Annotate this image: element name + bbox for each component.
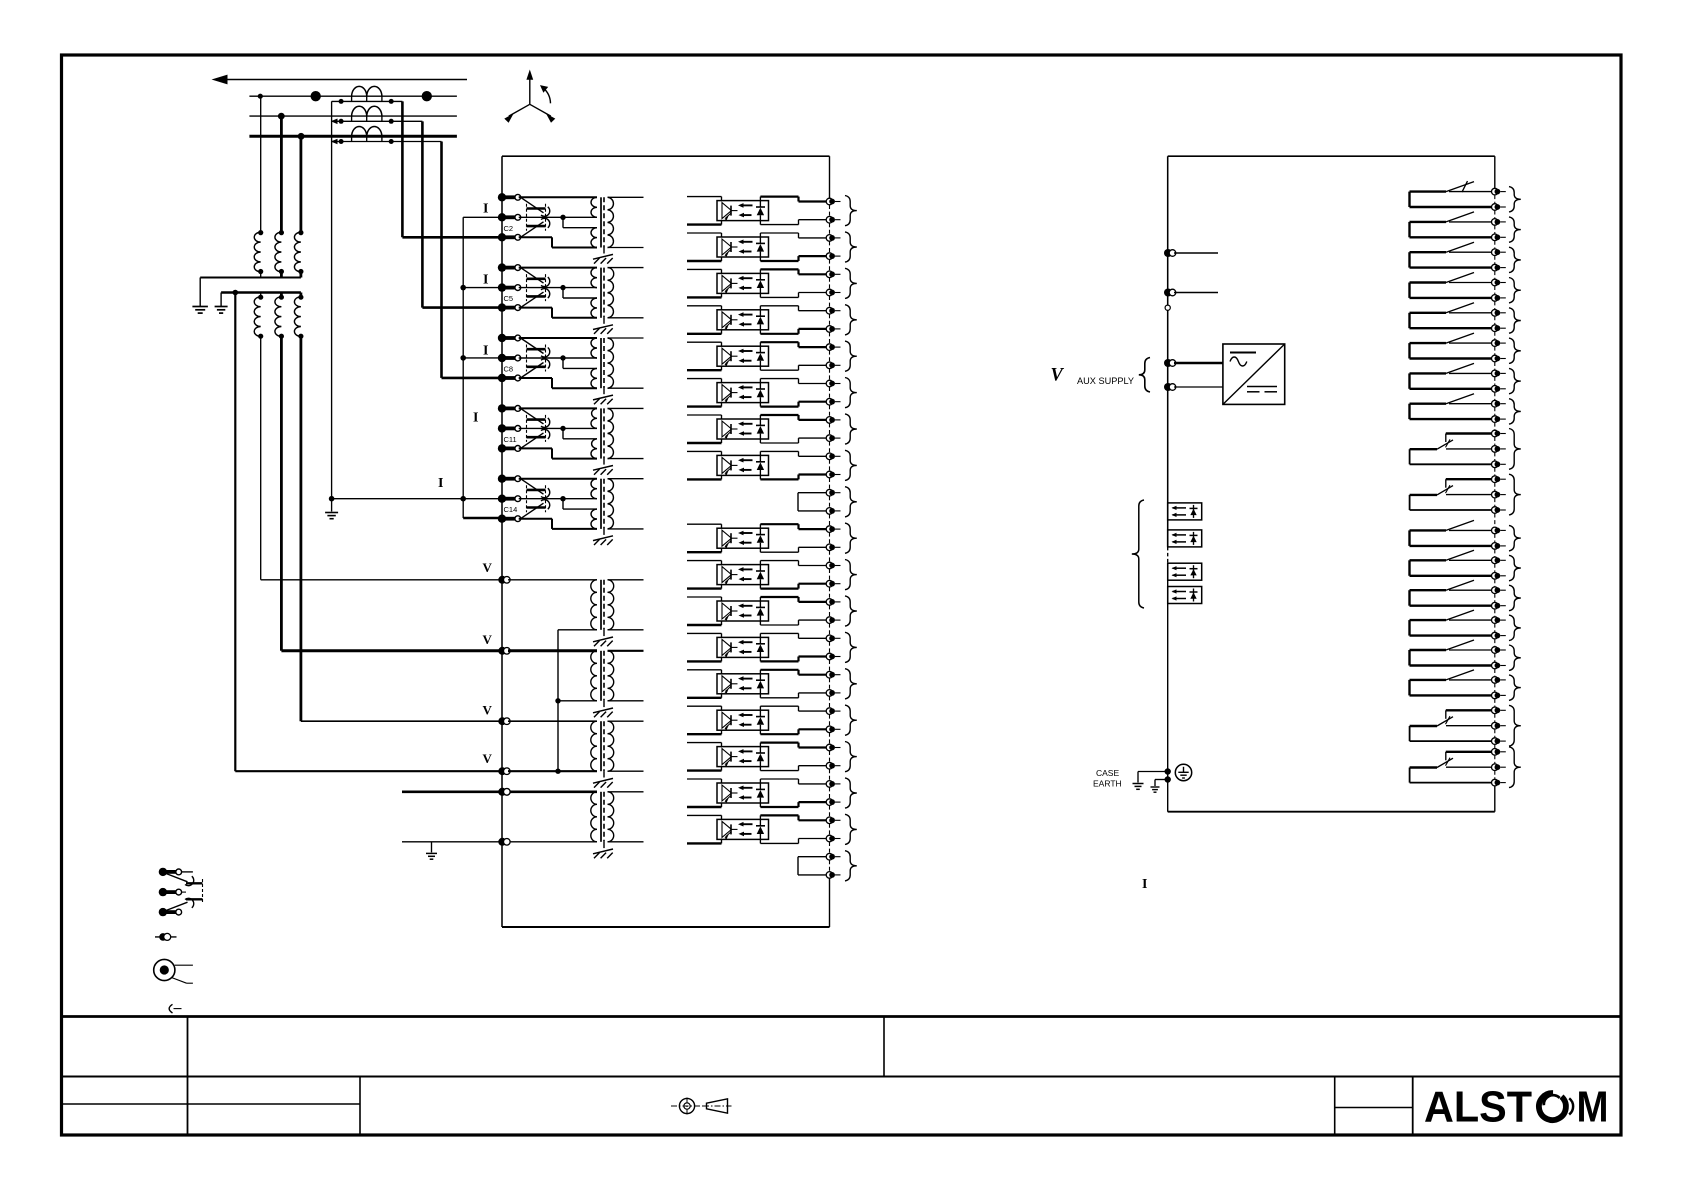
wire C5 secondary [608, 267, 644, 269]
wire C8 T2 tap [519, 357, 563, 359]
brace contact RL11 [1509, 525, 1521, 551]
node bus C tap [298, 133, 305, 140]
terminal pair contact RL3 [1492, 249, 1499, 256]
ground VT secondary [215, 306, 228, 308]
phasor rotation symbol [529, 75, 531, 104]
wire CT common to C14 [332, 498, 502, 500]
opto-isolator U2 [717, 237, 769, 257]
brace contact RL12 [1509, 555, 1521, 581]
opto-isolator U10 [717, 565, 769, 585]
wire earthed VT return [402, 841, 502, 843]
brace pair 8 [845, 450, 857, 480]
brace contact RL15 [1509, 645, 1521, 671]
wire VT secondary common tie [221, 291, 301, 294]
wire C8 secondary [608, 337, 644, 339]
svg-text:EARTH: EARTH [1093, 779, 1122, 789]
wire CT2 secondary loop [332, 120, 423, 122]
protective earth symbol [1175, 764, 1191, 780]
relay contact RL8 (make) [1410, 418, 1495, 420]
terminal trio contact RL10 [1492, 476, 1499, 483]
switch C5 CT shorting contacts [521, 268, 544, 284]
terminal pair 12 case outputs [826, 599, 833, 606]
svg-text:C14: C14 [504, 505, 518, 514]
relay contact RL18 (changeover) [1446, 751, 1495, 753]
legend shorting switch symbol [159, 868, 167, 876]
opto-isolator U3 [717, 273, 769, 293]
brace pair 16 [845, 742, 857, 772]
relay contact RL6 (make) [1410, 357, 1495, 359]
terminal V4 voltage input [498, 788, 506, 796]
terminal aux supply + [1164, 359, 1172, 367]
svg-text:I: I [483, 343, 488, 358]
transformer C5 input CT [591, 268, 597, 288]
relay contact RL15 (make) [1410, 664, 1495, 666]
terminal pair 17 case outputs [826, 781, 833, 788]
svg-text:V: V [1051, 366, 1065, 386]
terminal V3 voltage input [498, 717, 506, 725]
current transformer CT3 phase C [352, 126, 382, 136]
terminal pair 9 case outputs [826, 489, 833, 496]
transformer C11 input CT [591, 408, 597, 428]
brace pair 1 [845, 196, 857, 226]
terminal V2 voltage input [498, 647, 506, 655]
ground CT common [331, 499, 333, 512]
ground C8 CT screen [603, 388, 605, 394]
brace contact RL4 [1509, 278, 1521, 303]
wire return to C14 T3 [463, 517, 502, 519]
brace pair 12 [845, 596, 857, 626]
terminal pair contact RL13 [1492, 587, 1499, 594]
terminal pair 5 case outputs [826, 344, 833, 351]
terminal trio contact RL18 [1492, 749, 1499, 756]
wire C5 T2 tap [519, 287, 563, 289]
node return C8 [460, 355, 466, 361]
svg-text:M: M [1577, 1083, 1609, 1132]
svg-text:C2: C2 [504, 224, 514, 233]
wire VT secondary C to relay V3 [299, 336, 302, 721]
wire VT neutral to relay V4 [234, 293, 236, 772]
brace contact RL8 [1509, 399, 1521, 424]
wire VT secondary A to relay V1 [260, 336, 262, 579]
wire C8 T1 to CT primary [519, 337, 597, 339]
svg-text:I: I [473, 411, 478, 426]
svg-text:V: V [483, 560, 493, 575]
transformer VT3 [508, 720, 597, 722]
terminal pair contact RL14 [1492, 617, 1499, 624]
output terminal dashed strip [1494, 195, 1496, 203]
relay contact RL12 (make) [1410, 575, 1495, 577]
terminal V return inputs [498, 767, 506, 775]
brace pair 5 [845, 341, 857, 371]
brace contact RL18 [1509, 747, 1521, 788]
brace opto inputs group [1132, 500, 1144, 608]
brace aux supply [1139, 358, 1150, 393]
svg-text:V: V [483, 751, 493, 766]
wire CT common lead [331, 101, 333, 498]
svg-text:I: I [483, 272, 488, 287]
opto input L3 [1168, 563, 1202, 580]
brace contact RL6 [1509, 338, 1521, 363]
wire CT3 secondary loop [332, 141, 442, 143]
terminal block C14 current input [498, 475, 506, 483]
wire spare VT input [402, 790, 502, 793]
brace contact RL1 [1509, 187, 1521, 212]
wire VT common link [557, 630, 559, 771]
busbar phase B [249, 115, 457, 117]
wire CT3 secondary to C8 [440, 142, 443, 378]
terminal pair contact RL4 [1492, 279, 1499, 286]
brace contact RL9 [1509, 429, 1521, 470]
opto-isolator U17 [717, 819, 769, 839]
ground VT primary star point [192, 306, 208, 308]
svg-text:I: I [1142, 877, 1147, 892]
terminal aux supply - [1164, 383, 1172, 391]
legend socket symbol [154, 959, 175, 980]
relay contact RL17 (changeover) [1446, 709, 1495, 711]
busbar phase C [249, 135, 457, 138]
terminal block C11 current input [498, 404, 506, 412]
terminal trio contact RL9 [1492, 430, 1499, 437]
wire C14 T1 to CT primary [519, 478, 597, 480]
node bus A CT marks [311, 91, 321, 101]
wire case right edge bottom [829, 875, 831, 927]
terminal pair contact RL1 [1492, 188, 1499, 195]
terminal pair contact RL5 [1492, 310, 1499, 317]
switch C8 CT shorting contacts [521, 338, 544, 354]
relay contact RL7 (make) [1410, 388, 1495, 390]
svg-text:C8: C8 [504, 365, 514, 374]
terminal pair 7 case outputs [826, 417, 833, 424]
terminal pair 4 case outputs [826, 307, 833, 314]
svg-text:I: I [438, 476, 443, 491]
voltage transformer primary winding B [279, 230, 284, 235]
node return crossing [460, 496, 466, 502]
terminal pair contact RL8 [1492, 400, 1499, 407]
ground C2 CT screen [603, 248, 605, 254]
wire CT1 secondary loop [332, 100, 403, 102]
opto-isolator U9 [717, 528, 769, 548]
brace pair 4 [845, 305, 857, 335]
brace pair 13 [845, 632, 857, 662]
terminal spare stub 2 [1164, 289, 1172, 297]
wire C2 T3 to CT primary [519, 236, 552, 238]
opto-isolator U4 [717, 310, 769, 330]
terminal pair 13 case outputs [826, 635, 833, 642]
svg-text:C5: C5 [504, 294, 514, 303]
svg-text:V: V [483, 702, 493, 717]
terminal pair contact RL2 [1492, 219, 1499, 226]
terminal pair 14 case outputs [826, 671, 833, 678]
direction arrow to busbar [226, 79, 467, 81]
terminal pair contact RL11 [1492, 527, 1499, 534]
wire C5 T3 to CT primary [519, 307, 552, 309]
transformer VT1 [508, 579, 597, 581]
relay contact RL5 (make) [1410, 327, 1495, 329]
terminal trio contact RL17 [1492, 707, 1499, 714]
relay contact RL14 (make) [1410, 634, 1495, 636]
node return C5 [460, 285, 466, 291]
brace pair 3 [845, 268, 857, 298]
wire VT secondary B to relay V2 [280, 336, 283, 650]
wire C11 T1 to CT primary [519, 407, 597, 409]
wire case right edge top [829, 156, 831, 201]
brace contact RL16 [1509, 675, 1521, 701]
current transformer CT2 phase B [352, 106, 382, 116]
opto-isolator U8 [717, 455, 769, 475]
opto-isolator U16 [717, 783, 769, 803]
voltage transformer secondary winding C [299, 293, 302, 297]
relay contact RL2 (make) [1410, 236, 1495, 238]
svg-text:ALST: ALST [1424, 1083, 1532, 1132]
terminal pair 3 case outputs [826, 271, 833, 278]
wire C11 secondary [608, 407, 644, 409]
node open terminal [1165, 305, 1170, 310]
opto-isolator U5 [717, 346, 769, 366]
wire CT return bus [462, 217, 464, 518]
relay contact RL11 (make) [1410, 545, 1495, 547]
terminal block C8 current input [498, 334, 506, 342]
legend clip symbol [169, 1004, 172, 1013]
transformer VT2 [508, 649, 597, 652]
terminal case earth 2 [1165, 776, 1171, 782]
voltage transformer secondary winding B [280, 293, 283, 297]
switch C2 CT shorting contacts [521, 197, 544, 213]
terminal pair 10 case outputs [826, 526, 833, 533]
brace contact RL2 [1509, 217, 1521, 242]
terminal strip dashed line [829, 205, 831, 216]
opto-isolator U11 [717, 601, 769, 621]
transformer VT4 [508, 790, 597, 793]
title block frame [62, 1015, 1622, 1018]
terminal pair 15 case outputs [826, 708, 833, 715]
brace contact RL5 [1509, 308, 1521, 333]
terminal case earth 1 [1165, 768, 1171, 774]
ground VT return [431, 842, 433, 853]
wire C2 T2 tap [519, 216, 563, 218]
brace contact RL13 [1509, 585, 1521, 611]
wire C2 T1 to CT primary [519, 196, 597, 198]
wire V4 into VT3 bottom [508, 770, 597, 772]
terminal block C2 current input [498, 193, 506, 201]
brace pair 14 [845, 669, 857, 699]
relay contact RL9 (changeover) [1446, 432, 1495, 434]
brace pair 6 [845, 378, 857, 408]
current transformer CT1 phase A [352, 86, 382, 96]
relay output module case outline [1167, 156, 1169, 547]
wire C14 T3 to CT primary [519, 518, 552, 520]
ground C11 CT screen [603, 459, 605, 465]
ground C5 CT screen [603, 318, 605, 324]
opto-isolator U13 [717, 674, 769, 694]
wire shorting link pair 19 [798, 856, 826, 858]
ground C14 CT screen [603, 529, 605, 535]
relay contact RL1 (make) [1410, 206, 1495, 208]
svg-text:I: I [483, 202, 488, 217]
brace pair 2 [845, 232, 857, 262]
terminal pair 6 case outputs [826, 380, 833, 387]
switch C14 CT shorting contacts [521, 479, 544, 495]
relay contact RL16 (make) [1410, 694, 1495, 696]
brace pair 18 [845, 814, 857, 844]
brace pair 11 [845, 560, 857, 590]
wire C14 T2 tap [519, 498, 563, 500]
opto-isolator U1 [717, 201, 769, 221]
opto-isolator U7 [717, 419, 769, 439]
voltage transformer secondary winding A [260, 293, 262, 297]
opto input L1 [1168, 503, 1202, 520]
wire CT1 secondary to C2 [401, 101, 404, 237]
terminal pair 16 case outputs [826, 744, 833, 751]
ground case earth 1 [1133, 783, 1144, 785]
brace pair 19 [845, 851, 857, 881]
brace contact RL7 [1509, 368, 1521, 393]
opto input L4 [1168, 587, 1202, 604]
terminal pair contact RL16 [1492, 677, 1499, 684]
wire VT primary feeders [260, 96, 262, 232]
opto-isolator U6 [717, 383, 769, 403]
svg-text:C11: C11 [504, 435, 517, 444]
brace contact RL17 [1509, 705, 1521, 746]
opto-isolator U12 [717, 637, 769, 657]
terminal pair 1 case outputs [826, 198, 833, 205]
wire C14 secondary [608, 478, 644, 480]
terminal V1 voltage input [498, 576, 506, 584]
power supply unit [1223, 344, 1285, 404]
wire output case right edge top [1494, 156, 1496, 191]
brace pair 10 [845, 523, 857, 553]
terminal pair contact RL15 [1492, 647, 1499, 654]
wire CT2 secondary to C5 [421, 121, 424, 307]
transformer C2 input CT [591, 197, 597, 217]
relay analogue module case outline [501, 156, 503, 927]
terminal pair 18 case outputs [826, 817, 833, 824]
brace pair 7 [845, 414, 857, 444]
brace contact RL3 [1509, 247, 1521, 272]
brace pair 9 [845, 487, 857, 517]
opto-isolator U15 [717, 747, 769, 767]
brace pair 15 [845, 705, 857, 735]
terminal pair contact RL7 [1492, 370, 1499, 377]
wire shorting link pair 9 [798, 492, 826, 494]
opto input L2 [1168, 530, 1202, 547]
busbar phase A [249, 95, 457, 97]
brace contact RL14 [1509, 615, 1521, 641]
svg-text:V: V [483, 632, 493, 647]
voltage transformer primary winding C [298, 230, 303, 235]
node bus B tap [278, 113, 285, 120]
wire C11 T2 tap [519, 427, 563, 429]
terminal block C5 current input [498, 263, 506, 271]
wire C5 T1 to CT primary [519, 267, 597, 269]
svg-text:CASE: CASE [1096, 768, 1119, 778]
terminal pair 19 case outputs [826, 853, 833, 860]
node CT common earth junction [329, 496, 335, 502]
wire C2 secondary [608, 196, 644, 198]
ground VT3 secondary [603, 771, 605, 777]
wire VT primary neutral tie [200, 277, 301, 279]
legend terminal symbol [155, 936, 177, 938]
terminal pair 2 case outputs [826, 235, 833, 242]
switch C11 CT shorting contacts [521, 408, 544, 424]
transformer C14 input CT [591, 479, 597, 499]
opto-isolator U14 [717, 710, 769, 730]
terminal spare stub 1 [1164, 249, 1172, 257]
wire C8 T3 to CT primary [519, 377, 552, 379]
wire output case right edge bottom [1494, 783, 1496, 812]
terminal pair 8 case outputs [826, 453, 833, 460]
ground VT2 secondary [603, 701, 605, 707]
terminal pair contact RL6 [1492, 340, 1499, 347]
relay contact RL13 (make) [1410, 605, 1495, 607]
first angle projection symbol [679, 1098, 694, 1113]
brace contact RL10 [1509, 474, 1521, 515]
wire C11 T3 to CT primary [519, 447, 552, 449]
relay contact RL10 (changeover) [1446, 478, 1495, 480]
relay contact RL3 (make) [1410, 266, 1495, 268]
svg-text:AUX SUPPLY: AUX SUPPLY [1077, 376, 1134, 386]
brace pair 17 [845, 778, 857, 808]
node bus A tap [258, 94, 263, 99]
relay contact RL4 (make) [1410, 297, 1495, 299]
voltage transformer primary winding A [258, 230, 263, 235]
transformer C8 input CT [591, 338, 597, 358]
ground VT1 secondary [603, 630, 605, 636]
terminal pair 11 case outputs [826, 562, 833, 569]
node VT neutral tap [233, 290, 239, 296]
terminal pair contact RL12 [1492, 557, 1499, 564]
ground case earth 2 [1151, 786, 1160, 788]
ground VT4 secondary [603, 842, 605, 848]
